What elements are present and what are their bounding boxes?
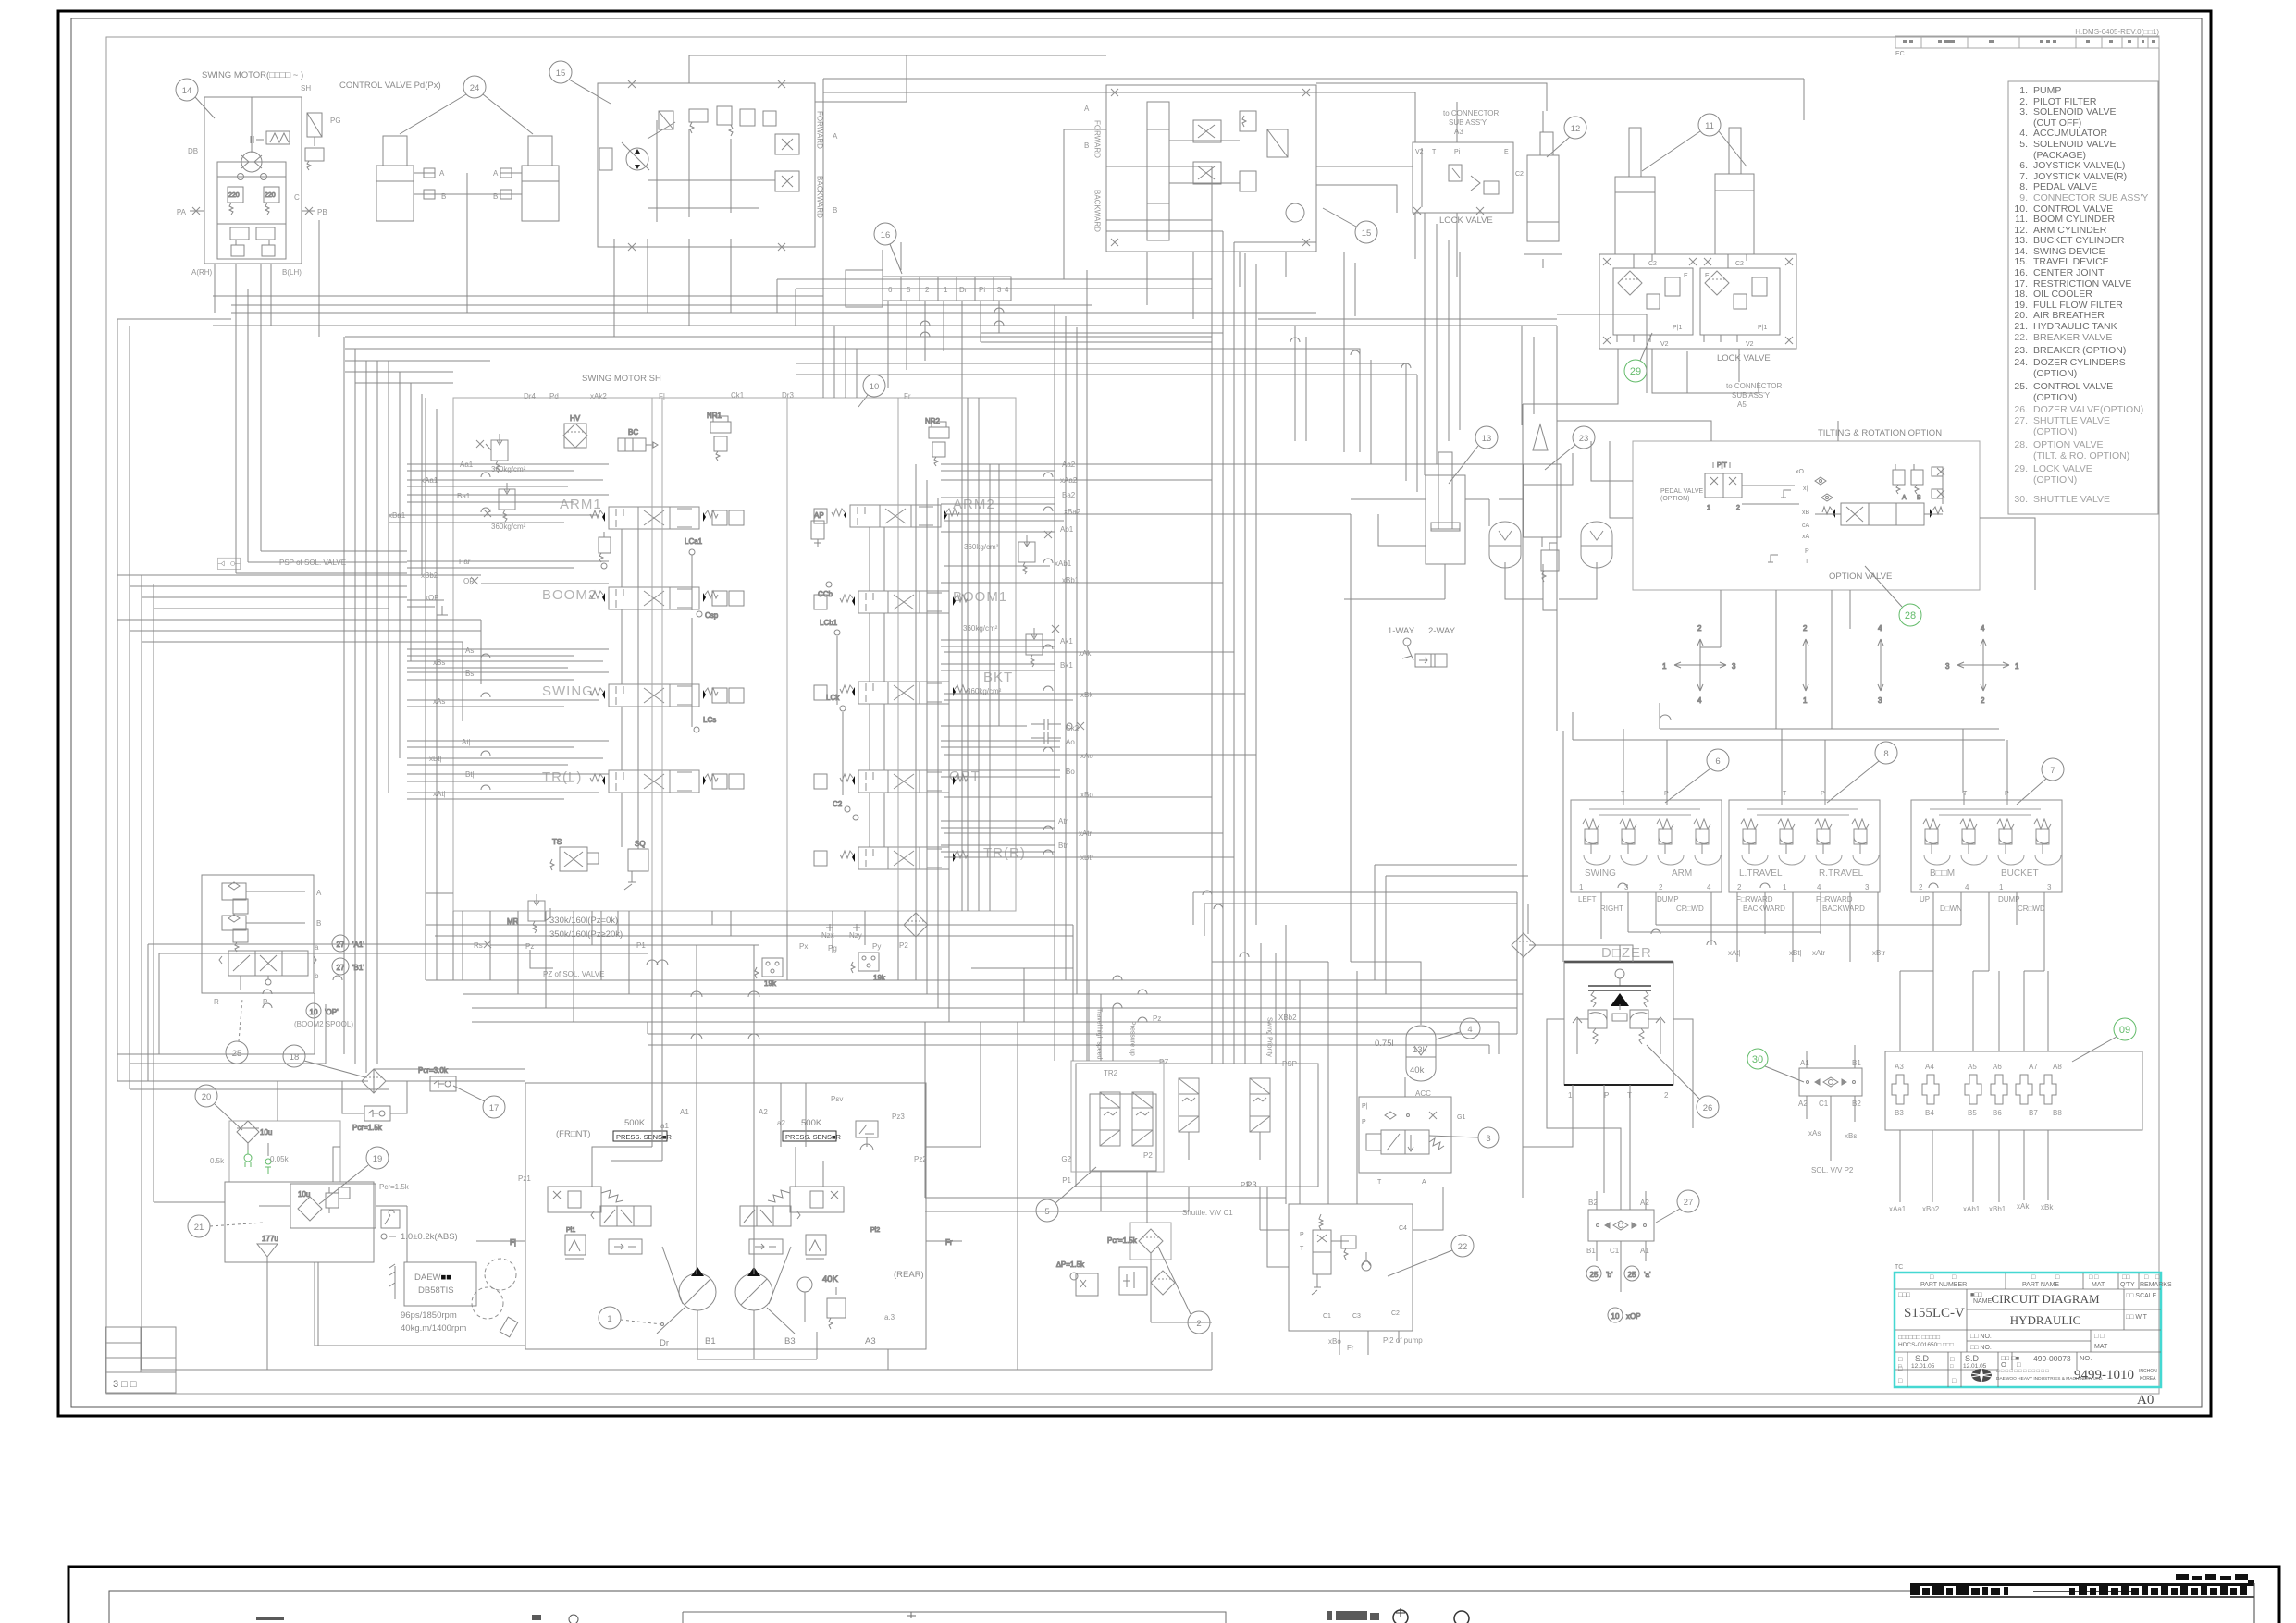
svg-text:500K: 500K <box>624 1118 646 1128</box>
svg-text:360kg/cm²: 360kg/cm² <box>491 465 526 473</box>
rs x mark <box>484 941 491 948</box>
svg-text:Pi: Pi <box>1454 149 1461 155</box>
svg-text:3: 3 <box>1732 662 1736 670</box>
svg-text:8.: 8. <box>2019 181 2028 192</box>
cv left labels row4 <box>429 738 475 798</box>
svg-text:A5: A5 <box>1968 1063 1977 1071</box>
svg-text:3: 3 <box>1878 696 1882 705</box>
svg-text:D□WN: D□WN <box>1940 904 1962 913</box>
callout circle 27 <box>1656 1190 1699 1223</box>
accumulator 4 <box>1406 1026 1436 1081</box>
svg-text:12.01.05: 12.01.05 <box>1911 1363 1935 1370</box>
svg-text:ARM1: ARM1 <box>560 497 602 512</box>
cv top port labels <box>524 391 911 400</box>
svg-text:xA: xA <box>1802 534 1810 540</box>
svg-text:(FR□NT): (FR□NT) <box>556 1129 590 1139</box>
svg-text:Ba2: Ba2 <box>1062 491 1076 499</box>
joystick block 7 TP labels <box>1963 791 2009 797</box>
svg-text:7: 7 <box>2050 766 2055 776</box>
AP component <box>811 511 824 547</box>
svg-text:G1: G1 <box>1457 1114 1465 1121</box>
svg-text:BOOM CYLINDER: BOOM CYLINDER <box>2033 214 2116 225</box>
svg-text:A(RH): A(RH) <box>191 268 213 277</box>
wire lock29 drops <box>1523 349 1759 592</box>
psv switch symbol <box>856 1121 878 1150</box>
svg-text:P2: P2 <box>1143 1151 1153 1160</box>
svg-text:xBs: xBs <box>433 658 445 667</box>
press sensor right <box>783 1131 842 1141</box>
svg-text:23: 23 <box>1579 434 1589 444</box>
gauge circle <box>797 1277 812 1322</box>
wire cv bottom drops <box>490 911 898 1274</box>
svg-text:15: 15 <box>556 68 566 79</box>
svg-text:Shuttle. V/V C1: Shuttle. V/V C1 <box>1182 1209 1233 1217</box>
svg-text:11.: 11. <box>2015 214 2028 225</box>
svg-text:xAb1: xAb1 <box>1055 559 1072 568</box>
travel device right internals <box>1147 102 1304 240</box>
joystick block 7 numbers <box>1919 883 2052 891</box>
svg-text:Atr: Atr <box>1058 818 1068 826</box>
svg-text:TC: TC <box>1895 1264 1903 1271</box>
svg-text:LCk: LCk <box>826 694 840 702</box>
svg-text:Csp: Csp <box>705 611 719 620</box>
cv inner risers <box>622 527 884 847</box>
svg-text:A8: A8 <box>2053 1063 2062 1071</box>
svg-text:TRAVEL DEVICE: TRAVEL DEVICE <box>2033 256 2109 267</box>
to connector A3 text <box>1443 109 1500 136</box>
wire joystick bus <box>1573 703 2007 793</box>
svg-text:OPTION VALVE: OPTION VALVE <box>2033 439 2103 450</box>
svg-text:A: A <box>1422 1179 1426 1186</box>
svg-text:LCa1: LCa1 <box>685 537 703 546</box>
svg-text:0.75l: 0.75l <box>1375 1039 1394 1049</box>
wire right cv edge verticals <box>968 398 999 911</box>
callout circle 14 <box>176 79 215 118</box>
wire right bus top links <box>1106 220 1316 313</box>
Pi1 box <box>510 1227 575 1247</box>
svg-text:PEDAL VALVE: PEDAL VALVE <box>1660 488 1704 495</box>
callout circle 25 <box>226 999 248 1064</box>
svg-text:C1: C1 <box>1819 1100 1829 1108</box>
option diamonds <box>1815 477 1833 501</box>
svg-text:Btr: Btr <box>1058 842 1068 850</box>
svg-text:SHUTTLE VALVE: SHUTTLE VALVE <box>2033 415 2110 426</box>
pcr 3.0k <box>218 558 449 1075</box>
svg-text:LOCK VALVE: LOCK VALVE <box>2033 463 2092 474</box>
svg-text:3: 3 <box>1865 883 1870 891</box>
svg-text:Pcr=1.5k: Pcr=1.5k <box>1107 1236 1138 1245</box>
svg-text:DB58TIS: DB58TIS <box>418 1285 454 1296</box>
mid collector horizontals <box>944 925 1073 1061</box>
dozer cyl valve assy <box>414 168 522 208</box>
tank strainer <box>257 1235 278 1262</box>
callout circle 10 <box>858 375 885 407</box>
wire misc bottom <box>259 1022 1443 1267</box>
svg-text:SWING: SWING <box>1585 868 1616 879</box>
svg-text:S.D: S.D <box>1965 1354 1980 1363</box>
svg-text:25.: 25. <box>2014 381 2028 392</box>
svg-text:B: B <box>316 919 321 928</box>
svg-text:A1: A1 <box>1640 1247 1649 1255</box>
svg-text:4.: 4. <box>2019 128 2028 139</box>
19k valve 1 <box>755 958 783 988</box>
svg-text:xAk: xAk <box>1079 649 1092 658</box>
cv25 labels <box>214 889 322 1006</box>
svg-text:Pz: Pz <box>525 942 534 951</box>
center joint 16 <box>846 270 1011 307</box>
relief 360 right1 <box>1018 531 1052 574</box>
pz arrow line <box>530 950 553 968</box>
wire A5 connector drop <box>1687 351 1759 393</box>
wire cv right to bus <box>1055 326 1557 962</box>
inner thin border page1 <box>71 18 2202 1407</box>
svg-text:P: P <box>1300 1232 1304 1238</box>
svg-text:A1: A1 <box>1800 1059 1809 1067</box>
center joint labels <box>888 286 1009 294</box>
svg-text:Fr: Fr <box>904 392 911 400</box>
svg-text:360kg/cm²: 360kg/cm² <box>967 687 1002 695</box>
svg-text:20.: 20. <box>2014 310 2028 321</box>
LCb1 mark <box>820 619 840 635</box>
A1 A2 labels <box>660 1108 785 1130</box>
direction cross 3 <box>1878 624 1883 705</box>
svg-text:12.01.05: 12.01.05 <box>1963 1363 1987 1370</box>
svg-text:4: 4 <box>1697 696 1702 705</box>
wire joystick to manifold diagonals <box>1375 865 1528 994</box>
svg-text:C1: C1 <box>1323 1313 1331 1320</box>
svg-text:28: 28 <box>1905 610 1916 621</box>
svg-text:2: 2 <box>1803 624 1808 633</box>
svg-text:Ab1: Ab1 <box>1060 525 1074 534</box>
wire cv left bus <box>117 319 422 1202</box>
wire package drops <box>925 1172 1289 1322</box>
svg-text:B1: B1 <box>1586 1247 1596 1255</box>
joystick block 8 TP labels <box>1783 791 1825 797</box>
svg-text:PEDAL VALVE: PEDAL VALVE <box>2033 181 2097 192</box>
svg-text:P|T: P|T <box>1717 462 1727 469</box>
svg-text:'a': 'a' <box>1644 1271 1651 1279</box>
Ck2 capacitor group <box>1031 719 1084 744</box>
svg-text:0.5k: 0.5k <box>210 1157 225 1165</box>
control valve option 25 block <box>202 875 316 993</box>
joystick block 8 <box>1729 793 1880 892</box>
right labels tr <box>1058 818 1094 862</box>
svg-text:1: 1 <box>1999 883 2004 891</box>
accumulator right <box>1581 522 1612 568</box>
svg-text:2: 2 <box>925 286 930 294</box>
svg-text:23.: 23. <box>2014 345 2028 356</box>
svg-text:BACKWARD: BACKWARD <box>816 176 824 218</box>
wire breaks deco <box>263 473 1716 1008</box>
svg-text:4: 4 <box>1981 624 1985 633</box>
svg-text:2: 2 <box>1919 883 1923 891</box>
svg-text:360kg/cm²: 360kg/cm² <box>963 624 998 633</box>
joystick bottom labels <box>1728 949 1886 957</box>
wire dozer drops <box>1523 945 1693 1210</box>
accumulator left <box>1489 522 1521 568</box>
wire option region verticals <box>1425 213 1534 475</box>
svg-text:xAs: xAs <box>1808 1129 1821 1137</box>
svg-text:A4: A4 <box>1925 1063 1934 1071</box>
svg-text:C2: C2 <box>1648 261 1657 267</box>
svg-text:PRESS. SENS■R: PRESS. SENS■R <box>616 1133 673 1141</box>
svg-text:B6: B6 <box>1993 1109 2002 1117</box>
lock valve top box <box>1413 142 1513 215</box>
svg-text:2: 2 <box>1664 1091 1669 1100</box>
svg-text:E: E <box>1705 273 1710 279</box>
svg-text:□□□: □□□ <box>1898 1292 1910 1298</box>
relief 360 top-left <box>476 434 508 473</box>
svg-text:V2: V2 <box>1660 341 1669 348</box>
callout circle 23 <box>1545 426 1595 470</box>
bucket cylinder 13 <box>1426 452 1465 564</box>
svg-text:KOREA: KOREA <box>2140 1376 2156 1382</box>
svg-text:28.: 28. <box>2014 439 2028 450</box>
CCb mark <box>818 582 833 598</box>
svg-text:3: 3 <box>997 286 1002 294</box>
SWING valve <box>590 684 718 707</box>
svg-text:Dr3: Dr3 <box>782 391 794 400</box>
svg-text:xAa1: xAa1 <box>1889 1205 1907 1213</box>
svg-text:A3: A3 <box>1895 1063 1904 1071</box>
svg-text:19k: 19k <box>873 974 886 982</box>
svg-text:SOLENOID VALVE: SOLENOID VALVE <box>2033 106 2116 117</box>
svg-text:10u: 10u <box>260 1128 272 1137</box>
svg-text:SH: SH <box>301 84 311 92</box>
wire lock valve top feeds <box>823 79 1804 313</box>
svg-text:xBtr: xBtr <box>1872 949 1886 957</box>
manifold drop wires <box>1900 1130 2048 1202</box>
svg-text:Pd: Pd <box>549 392 559 400</box>
svg-text:HV: HV <box>570 414 581 423</box>
svg-text:B: B <box>493 192 498 201</box>
svg-text:C3: C3 <box>1352 1313 1361 1320</box>
svg-text:LEFT: LEFT <box>1578 895 1597 904</box>
svg-text:24: 24 <box>470 83 480 93</box>
right regulator <box>740 1187 844 1259</box>
wire option drop links <box>1700 421 2035 647</box>
wire sheet bottom long <box>142 1022 1212 1370</box>
breaker valve 22 box <box>1289 1204 1413 1331</box>
wire joystick block drops <box>1601 892 2048 1051</box>
lever valve <box>1402 638 1447 667</box>
callout circle 26 <box>1647 1045 1719 1118</box>
cutoff solenoid 3 box <box>1359 1077 1451 1173</box>
direction cross 2 <box>1803 624 1808 705</box>
svg-text:26.: 26. <box>2014 404 2028 415</box>
svg-text:17: 17 <box>489 1103 500 1113</box>
svg-text:B8: B8 <box>2053 1109 2062 1117</box>
svg-text:SOLENOID VALVE: SOLENOID VALVE <box>2033 139 2116 150</box>
svg-text:T: T <box>1783 791 1787 797</box>
svg-text:12: 12 <box>1571 124 1581 134</box>
joystick block 6 TP labels <box>1621 791 1669 797</box>
callout circle 11 <box>1642 114 1747 171</box>
filter diamond right of P2 <box>904 913 928 937</box>
callout circle 15 right <box>1323 208 1377 243</box>
sheet2 outer thick border <box>68 1567 2279 1623</box>
svg-text:PB: PB <box>317 208 327 216</box>
svg-text:T: T <box>1963 791 1968 797</box>
shuttle 30 labels <box>1798 1059 1861 1140</box>
joystick block 7 <box>1911 793 2062 892</box>
wire long mid horizontals <box>213 296 1092 1064</box>
svg-text:29: 29 <box>1630 366 1641 377</box>
svg-text:xBk: xBk <box>2041 1203 2054 1211</box>
svg-text:R.TRAVEL: R.TRAVEL <box>1819 868 1864 879</box>
wire center joint feeds <box>823 242 901 313</box>
wire ladder doubles right <box>941 471 1073 852</box>
wire bottom bus <box>463 911 1517 1022</box>
wire right area verticals2 <box>1212 712 1573 1355</box>
svg-text:P: P <box>1604 1091 1609 1100</box>
pz xbb2 labels top <box>1153 1014 1297 1023</box>
svg-text:PRESS. SENS■R: PRESS. SENS■R <box>785 1133 842 1141</box>
wire right bus verticals <box>1212 220 1557 1198</box>
svg-text:B3: B3 <box>1895 1109 1904 1117</box>
svg-text:1-WAY: 1-WAY <box>1388 626 1415 636</box>
svg-text:xBa2: xBa2 <box>1064 508 1081 516</box>
svg-text:XBb2: XBb2 <box>1278 1014 1297 1022</box>
svg-text:P: P <box>1821 791 1825 797</box>
wire below cv extras <box>426 893 962 980</box>
arm cylinder 12 <box>1524 111 1562 254</box>
TS component <box>550 838 599 871</box>
svg-text:P: P <box>1805 548 1809 555</box>
manifold cross ports <box>1892 1075 2056 1104</box>
svg-text:6: 6 <box>1715 756 1720 767</box>
svg-text:Bs: Bs <box>465 670 474 678</box>
wire bus breaks <box>647 960 759 1039</box>
svg-text:21.: 21. <box>2014 321 2028 332</box>
svg-text:□ □ □ □ □ □ □ □ □ □ □ □: □ □ □ □ □ □ □ □ □ □ □ □ <box>1996 1369 2049 1374</box>
option port labels <box>1796 469 1810 565</box>
svg-text:4: 4 <box>1965 883 1969 891</box>
svg-text:19: 19 <box>373 1154 383 1164</box>
svg-text:8: 8 <box>1883 749 1888 759</box>
lock valve pair x marks <box>1603 258 1793 344</box>
svg-text:S155LC-V: S155LC-V <box>1904 1306 1965 1321</box>
svg-text:3: 3 <box>1486 1134 1490 1144</box>
svg-text:BUCKET CYLINDER: BUCKET CYLINDER <box>2033 235 2125 246</box>
svg-text:Pi: Pi <box>979 286 985 294</box>
svg-text:20: 20 <box>202 1092 212 1102</box>
relief between accumulators <box>1541 543 1559 582</box>
sheet2 title strip underline <box>1910 1596 2254 1598</box>
svg-text:'B1': 'B1' <box>352 964 364 972</box>
mid verticals right of cv <box>916 464 990 1022</box>
svg-text:CENTER JOINT: CENTER JOINT <box>2033 267 2105 278</box>
SQ component <box>624 840 648 890</box>
sheet2 small marks <box>256 1608 1469 1623</box>
package left valves TR2 <box>1090 1092 1156 1171</box>
svg-text:0.05k: 0.05k <box>270 1155 290 1163</box>
svg-text:14: 14 <box>182 86 192 96</box>
svg-text:2: 2 <box>1981 696 1985 705</box>
svg-text:Bk1: Bk1 <box>1060 661 1073 670</box>
svg-text:□ □: □ □ <box>2089 1274 2099 1281</box>
callout circle 5 <box>1036 1167 1096 1222</box>
svg-text:Bo: Bo <box>1066 768 1075 776</box>
40K relief <box>822 1274 846 1329</box>
svg-text:A6: A6 <box>1993 1063 2002 1071</box>
callout circle 24 <box>400 76 533 134</box>
svg-text:As: As <box>465 646 474 655</box>
svg-text:xBo2: xBo2 <box>1922 1205 1940 1213</box>
option 4way valve <box>1822 495 1943 525</box>
svg-text:CR□WD: CR□WD <box>1676 904 1704 913</box>
wire bundle to option area <box>796 308 1557 492</box>
svg-text:P1: P1 <box>1062 1176 1071 1185</box>
LCa1 mark <box>685 537 703 555</box>
svg-text:SOL. V/V P2: SOL. V/V P2 <box>1811 1166 1854 1174</box>
svg-text:BACKWARD: BACKWARD <box>1743 904 1785 913</box>
svg-text:MAT: MAT <box>2092 1282 2105 1288</box>
svg-text:DB: DB <box>188 147 198 155</box>
svg-text:V2: V2 <box>1415 149 1424 155</box>
joystick block 6 labels <box>1585 868 1692 879</box>
svg-text:SWING MOTOR(□□□□ ~ ): SWING MOTOR(□□□□ ~ ) <box>202 70 303 80</box>
svg-text:SUB ASS'Y: SUB ASS'Y <box>1449 118 1487 127</box>
air breather green checks <box>244 1150 271 1174</box>
ARM1 valve <box>590 507 718 529</box>
svg-text:Pcr=1.5k: Pcr=1.5k <box>352 1124 383 1132</box>
svg-text:Ck2: Ck2 <box>1066 724 1080 732</box>
svg-text:LCs: LCs <box>703 716 716 724</box>
svg-text:□: □ <box>1898 1355 1903 1363</box>
svg-text:□: □ <box>1950 1364 1954 1370</box>
svg-text:Pi2 of pump: Pi2 of pump <box>1383 1336 1423 1345</box>
callout circle 4 <box>1436 1018 1480 1039</box>
svg-text:(OPTION): (OPTION) <box>1660 496 1690 502</box>
svg-text:40k: 40k <box>1410 1065 1425 1076</box>
air breather 20 <box>229 1121 340 1182</box>
svg-text:xAb1: xAb1 <box>1963 1205 1981 1213</box>
third angle table <box>105 1327 176 1393</box>
svg-text:P|: P| <box>1362 1103 1368 1110</box>
cv right labels <box>1055 461 1081 584</box>
svg-text:A7: A7 <box>2029 1063 2038 1071</box>
joystick block 7 captions <box>1920 895 2045 913</box>
shuttle 27 labels <box>1586 1199 1649 1255</box>
svg-text:BUCKET: BUCKET <box>2001 868 2039 879</box>
svg-text:P: P <box>1362 1119 1366 1125</box>
svg-text:xAtr: xAtr <box>1812 949 1826 957</box>
svg-text:F|: F| <box>659 392 665 400</box>
parts list text <box>2014 85 2148 505</box>
svg-text:(OPTION): (OPTION) <box>2033 474 2077 486</box>
joystick block 6 captions <box>1578 895 1704 913</box>
wire pump feeds <box>592 945 823 1187</box>
svg-text:FORWARD: FORWARD <box>1093 120 1102 158</box>
svg-text:BKT: BKT <box>983 670 1013 685</box>
svg-text:2: 2 <box>1736 505 1740 511</box>
svg-text:CONNECTOR SUB ASS'Y: CONNECTOR SUB ASS'Y <box>2033 192 2148 203</box>
LCk mark <box>826 694 846 711</box>
svg-text:NO.: NO. <box>2080 1354 2092 1362</box>
joystick block 7 labels <box>1930 868 2039 879</box>
svg-text:ACCUMULATOR: ACCUMULATOR <box>2033 128 2108 139</box>
svg-text:A1: A1 <box>680 1108 689 1116</box>
svg-text:2: 2 <box>1196 1319 1201 1329</box>
ARM2 valve <box>832 505 959 527</box>
svg-text:1: 1 <box>1662 662 1667 670</box>
travel left port x marks <box>628 80 785 251</box>
hydraulic tank 21 <box>225 1182 374 1262</box>
svg-text:ARM: ARM <box>1672 868 1692 879</box>
svg-text:B7: B7 <box>2029 1109 2038 1117</box>
svg-text:(BOOM2 SPOOL): (BOOM2 SPOOL) <box>294 1020 353 1028</box>
